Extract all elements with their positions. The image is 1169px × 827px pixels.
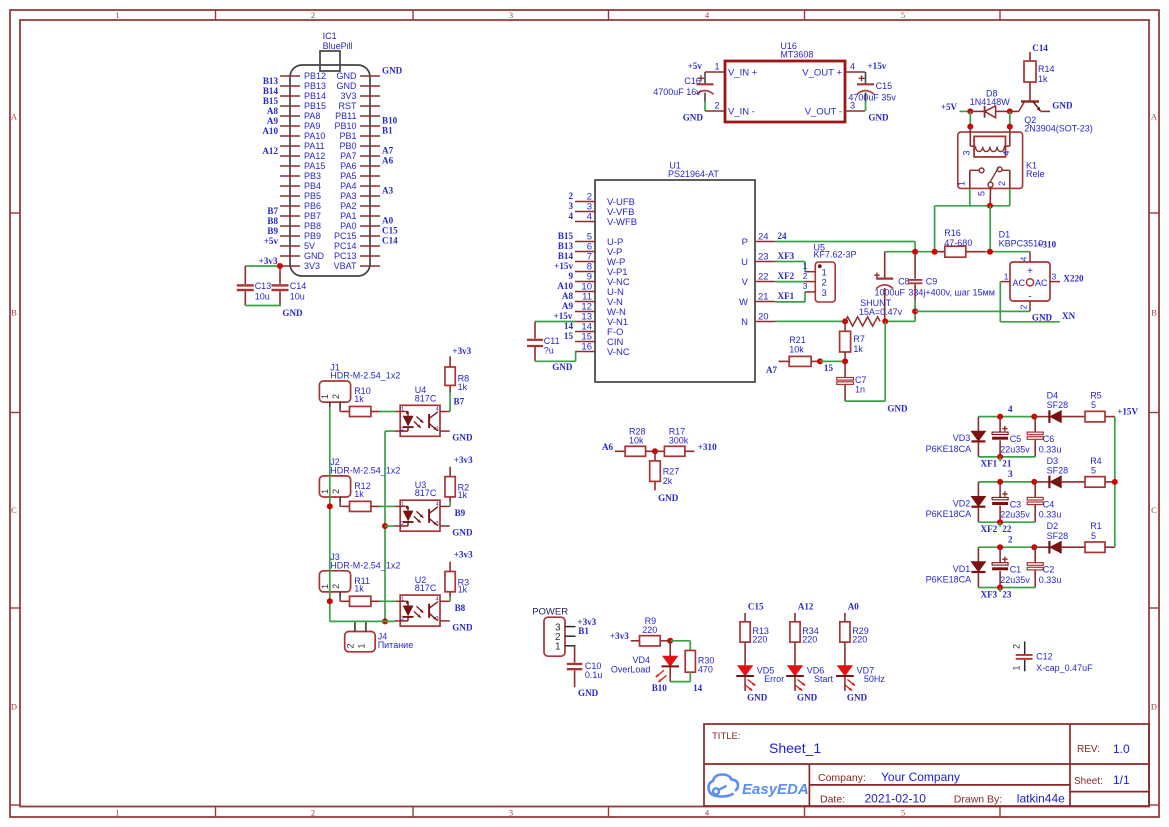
title block divider vertical right column: [1069, 724, 1071, 806]
diode D4 symbol: [1048, 410, 1050, 423]
wire top rail VD2 block: [978, 481, 1034, 483]
net label stub XF2: [999, 522, 1001, 527]
IC1 pin 3V3 (left): [280, 265, 300, 267]
optocoupler U2 pin 4 stub: [440, 600, 450, 602]
wire +5V to D8: [960, 110, 971, 112]
net label stub XF3: [999, 588, 1001, 593]
svg-text:B8: B8: [267, 216, 278, 226]
junction J3 pin1: [327, 598, 333, 604]
svg-text:KF7.62-3P: KF7.62-3P: [814, 250, 857, 260]
svg-text:B7: B7: [454, 396, 465, 406]
svg-text:C15: C15: [748, 601, 764, 611]
svg-text:B9: B9: [455, 508, 466, 518]
IC1 pin PA3 (right): [360, 195, 380, 197]
svg-text:817C: 817C: [415, 488, 437, 498]
svg-text:1: 1: [115, 808, 119, 818]
diode D3 symbol: [1048, 476, 1050, 489]
svg-text:22u35v: 22u35v: [1000, 444, 1030, 454]
capacitor C6 lead top: [1034, 417, 1036, 433]
title block divider horizontal: [704, 763, 1149, 765]
svg-text:GND: GND: [847, 692, 868, 702]
svg-text:23: 23: [1002, 589, 1012, 599]
optocoupler U4 pin 3 stub: [440, 430, 450, 432]
IC1 pin PB6 (left): [280, 205, 300, 207]
svg-text:10k: 10k: [629, 436, 644, 446]
svg-text:A: A: [11, 112, 18, 122]
svg-text:R14: R14: [1038, 64, 1055, 74]
resistor R3 lead top: [449, 562, 451, 572]
svg-text:2: 2: [311, 808, 315, 818]
svg-text:A0: A0: [382, 216, 394, 226]
U1 pin 3 V-VFB: [575, 211, 595, 213]
capacitor C14 lead top: [279, 266, 281, 284]
svg-text:Sheet:: Sheet:: [1074, 776, 1103, 787]
resistor R27 lead bottom: [654, 481, 656, 490]
svg-text:B10: B10: [382, 116, 398, 126]
svg-text:A10: A10: [557, 281, 573, 291]
relay K1 pin 4 lead: [1009, 127, 1011, 147]
svg-text:A7: A7: [766, 365, 778, 375]
svg-text:A9: A9: [562, 301, 574, 311]
svg-text:GND: GND: [578, 688, 599, 698]
svg-text:14: 14: [693, 683, 703, 693]
svg-text:?u: ?u: [544, 345, 554, 355]
resistor R10 lead right: [371, 411, 380, 413]
svg-text:B9: B9: [267, 226, 278, 236]
svg-text:4: 4: [1018, 256, 1028, 261]
junction relay pin5 at +310 row: [987, 249, 993, 255]
wire +15V rail vertical: [1114, 417, 1116, 548]
relay K1 switch pin2 arm: [1009, 170, 1011, 188]
resistor R21 lead left: [779, 360, 790, 362]
svg-text:22u35v: 22u35v: [1000, 510, 1030, 520]
svg-text:P6KE18CA: P6KE18CA: [926, 509, 972, 519]
optocoupler U2 pin 3 stub: [440, 620, 450, 622]
svg-text:REV:: REV:: [1077, 744, 1100, 755]
resistor R17 lead left: [655, 450, 664, 452]
svg-text:PB1: PB1: [339, 131, 356, 141]
wire C7 to GND: [845, 400, 885, 402]
svg-text:+3v3: +3v3: [454, 550, 473, 560]
svg-text:1: 1: [714, 62, 719, 72]
svg-text:5: 5: [1091, 531, 1096, 541]
svg-text:817C: 817C: [415, 583, 437, 593]
resistor R34: [790, 622, 800, 642]
junction C5 bottom: [997, 454, 1003, 460]
svg-text:1/1: 1/1: [1113, 773, 1130, 787]
svg-text:470: 470: [698, 665, 713, 675]
capacitor C14: [272, 284, 289, 286]
U1 pin 4 V-WFB: [575, 221, 595, 223]
svg-text:V: V: [742, 277, 749, 288]
svg-text:V-NC: V-NC: [607, 347, 630, 358]
IC1 pin PA15 (left): [280, 165, 300, 167]
svg-text:PB13: PB13: [304, 81, 326, 91]
relay K1 switch pin1 arm: [969, 170, 971, 188]
resistor R2 lead top: [449, 467, 451, 477]
svg-text:HDR-M-2.54_1x2: HDR-M-2.54_1x2: [330, 371, 400, 381]
svg-text:1N4148W: 1N4148W: [970, 97, 1011, 107]
IC1 pin PB1 (right): [360, 135, 380, 137]
capacitor C6 lead bottom: [1034, 439, 1036, 457]
diode D8 cathode lead: [996, 110, 1010, 112]
optocoupler U2 internal LED: [400, 600, 408, 602]
svg-text:GND: GND: [683, 113, 704, 123]
IC1 pin PB9 (left): [280, 235, 300, 237]
IC1 pin PB4 (left): [280, 185, 300, 187]
svg-text:3V3: 3V3: [340, 91, 356, 101]
U1 pin 21 W: [755, 301, 775, 303]
svg-text:Drawn By:: Drawn By:: [954, 794, 1002, 806]
svg-text:XN: XN: [1062, 311, 1076, 321]
title block outline: [704, 724, 1149, 806]
resistor R29 lead top: [844, 613, 846, 622]
svg-text:1000uF: 1000uF: [875, 288, 906, 298]
resistor R2: [445, 477, 455, 497]
IC1 pin PB11 (right): [360, 115, 380, 117]
wire U3 pin2 link: [385, 525, 395, 527]
optocoupler U2 light arrows: [417, 606, 424, 612]
resistor R12: [350, 501, 371, 511]
svg-text:B15: B15: [558, 231, 574, 241]
svg-text:Sheet_1: Sheet_1: [769, 740, 821, 756]
svg-text:GND: GND: [304, 251, 325, 261]
svg-text:GND: GND: [887, 403, 908, 413]
svg-text:D: D: [11, 702, 17, 712]
wire U1 pin23 to U5 pin1: [775, 261, 805, 263]
svg-text:HDR-M-2.54_1x2: HDR-M-2.54_1x2: [330, 466, 400, 476]
svg-text:B14: B14: [263, 86, 279, 96]
svg-text:220: 220: [802, 635, 817, 645]
junction C9 top: [912, 249, 918, 255]
IC1 pin GND (right): [360, 75, 380, 77]
svg-text:PB10: PB10: [334, 121, 356, 131]
capacitor C4 non-polarized: [1027, 497, 1043, 500]
bridge D1 pin 2 lead: [1029, 301, 1031, 311]
svg-text:2: 2: [803, 271, 808, 281]
resistor R10 lead left: [342, 411, 350, 413]
title block sheet divider: [1070, 791, 1149, 793]
svg-text:47-680: 47-680: [944, 238, 972, 248]
svg-text:A12: A12: [262, 146, 278, 156]
U5 pin 2: [805, 281, 815, 283]
svg-text:R21: R21: [789, 335, 806, 345]
svg-text:SF28: SF28: [1047, 531, 1069, 541]
svg-text:A8: A8: [267, 106, 279, 116]
capacitor C14 lead bottom: [279, 291, 281, 305]
svg-text:VD1: VD1: [953, 564, 971, 574]
svg-text:V_OUT -: V_OUT -: [805, 106, 842, 117]
svg-text:2: 2: [1008, 535, 1013, 545]
wire D1 pin1 to XN row: [999, 282, 1001, 322]
wire R8 to U4 pin4: [449, 393, 451, 412]
title block company/date divider: [809, 784, 1070, 786]
connector J3 pin 1 stub: [329, 592, 331, 598]
capacitor C16 polarity plus: [698, 75, 704, 81]
wire VD4 to R30 bottom: [670, 681, 690, 683]
svg-text:V_IN +: V_IN +: [728, 67, 758, 78]
svg-text:GND: GND: [282, 308, 303, 318]
svg-text:GND: GND: [552, 362, 573, 372]
svg-text:XF1: XF1: [981, 459, 998, 469]
svg-text:Error: Error: [764, 674, 784, 684]
svg-text:4700uF 16v: 4700uF 16v: [653, 87, 701, 97]
capacitor C8 electrolytic: [876, 278, 893, 280]
svg-text:Date:: Date:: [820, 794, 845, 806]
svg-text:5V: 5V: [304, 241, 315, 251]
IC1 pin PA11 (left): [280, 145, 300, 147]
svg-text:P: P: [742, 237, 748, 248]
svg-text:GND: GND: [797, 692, 818, 702]
junction U2 pin2: [382, 618, 388, 624]
svg-text:2: 2: [1018, 304, 1028, 309]
svg-text:C2: C2: [1043, 565, 1055, 575]
svg-text:AC: AC: [1035, 278, 1048, 288]
wire relay pin3 riser: [969, 111, 971, 126]
svg-text:PS21964-AT: PS21964-AT: [668, 169, 719, 179]
svg-text:V-WFB: V-WFB: [607, 217, 637, 228]
U16 pin 2 V_IN-: [705, 110, 725, 112]
diode D2 symbol: [1048, 541, 1050, 554]
wire R11 to U2 pin1: [380, 600, 395, 602]
diode D8 symbol: [984, 106, 986, 118]
svg-text:A10: A10: [262, 126, 278, 136]
svg-text:PB4: PB4: [304, 181, 321, 191]
svg-text:R16: R16: [944, 228, 961, 238]
junction shunt right / C8: [882, 318, 888, 324]
junction R7/C7: [842, 358, 848, 364]
svg-text:5: 5: [1091, 466, 1096, 476]
svg-text:+3v3: +3v3: [452, 346, 471, 356]
resistor R8: [445, 367, 455, 385]
svg-text:3: 3: [803, 281, 808, 291]
U5 body: [815, 262, 835, 302]
LED VD6 lead bottom: [794, 677, 796, 691]
svg-text:C9: C9: [926, 276, 938, 286]
svg-text:A3: A3: [382, 186, 394, 196]
svg-text:PB9: PB9: [304, 231, 321, 241]
junction R28/R17/R27: [652, 448, 658, 454]
IC1 pin PA6 (right): [360, 165, 380, 167]
optocoupler U4 internal LED: [400, 411, 408, 413]
LED VD4 lead top: [669, 641, 671, 656]
svg-text:3: 3: [822, 288, 827, 299]
wire U4 pin2 link: [385, 430, 395, 432]
svg-text:N: N: [741, 317, 748, 328]
svg-text:W: W: [739, 297, 748, 308]
resistor R2 lead bottom: [449, 497, 451, 503]
svg-text:B1: B1: [382, 126, 393, 136]
svg-text:2: 2: [331, 394, 341, 399]
resistor R17: [664, 446, 685, 456]
svg-text:4: 4: [568, 211, 573, 221]
junction relay pin3: [967, 124, 973, 130]
svg-text:1: 1: [320, 584, 330, 589]
wire bottom bus to U2 pin2: [330, 620, 395, 622]
svg-text:R5: R5: [1090, 391, 1102, 401]
TVS diode VD3 symbol: [971, 431, 985, 441]
wire U1 pin22 to U5 pin2: [775, 281, 805, 283]
optocoupler U2 body: [400, 595, 440, 626]
svg-text:PB15: PB15: [304, 101, 326, 111]
IC1 pin PB15 (left): [280, 105, 300, 107]
junction C4 top: [1031, 479, 1037, 485]
resistor R29: [840, 622, 850, 642]
title block logo cell divider: [808, 764, 810, 806]
wire U1 pin21 to U5 pin3: [775, 301, 805, 303]
connector J3 body: [319, 571, 350, 592]
svg-text:GND: GND: [337, 81, 358, 91]
capacitor C11: [527, 339, 543, 341]
svg-text:A9: A9: [267, 116, 279, 126]
svg-text:X220: X220: [1063, 273, 1084, 283]
capacitor C12 pin 1 lead: [1024, 660, 1026, 672]
diode D2 lead right: [1061, 546, 1085, 548]
optocoupler U2 pin 1 stub: [395, 600, 400, 602]
svg-text:220: 220: [642, 625, 657, 635]
LED VD4 lead bottom: [669, 667, 671, 682]
U1 pin 16 V-NC: [575, 351, 595, 353]
wire C9 to D1 pin2: [915, 310, 1030, 312]
IC1 pin PC13 (right): [360, 255, 380, 257]
resistor R5 lead right: [1105, 416, 1115, 418]
svg-text:PB3: PB3: [304, 171, 321, 181]
resistor R1 lead right: [1105, 546, 1115, 548]
junction C3 bottom: [997, 519, 1003, 525]
relay K1 common contact: [988, 182, 993, 187]
capacitor C9: [908, 279, 923, 281]
svg-text:GND: GND: [452, 527, 473, 537]
svg-text:BluePill: BluePill: [323, 41, 353, 51]
IC1 pin PA8 (left): [280, 115, 300, 117]
svg-text:1k: 1k: [354, 489, 364, 499]
LED VD4 arrows: [656, 670, 664, 677]
svg-text:+3v3: +3v3: [454, 455, 473, 465]
connector J1 body: [319, 381, 350, 402]
svg-text:22: 22: [1002, 524, 1012, 534]
svg-text:23: 23: [758, 252, 769, 263]
svg-text:+15V: +15V: [1117, 406, 1138, 416]
svg-text:C15: C15: [382, 226, 398, 236]
junction relay pin5 bus: [987, 203, 993, 209]
wire C8/shunt down to GND row: [884, 321, 886, 401]
optocoupler U3 pin 3 stub: [440, 525, 450, 527]
resistor R11 lead left: [342, 600, 350, 602]
svg-text:P6KE18CA: P6KE18CA: [926, 574, 972, 584]
connector J3 pin 2 stub: [339, 592, 341, 598]
resistor R13 lead top: [744, 613, 746, 622]
svg-text:POWER: POWER: [532, 607, 568, 618]
LED VD7 symbol: [838, 666, 852, 676]
IC1 pin PB13 (left): [280, 85, 300, 87]
svg-text:PC15: PC15: [334, 231, 357, 241]
U16 pin 4 V_OUT+: [845, 71, 865, 73]
wire relay pin4 riser: [1009, 111, 1011, 126]
U1 pin 5 U-P: [575, 241, 595, 243]
svg-text:817C: 817C: [415, 393, 437, 403]
svg-text:PA11: PA11: [304, 141, 325, 151]
svg-text:PB8: PB8: [304, 221, 321, 231]
capacitor C2 lead bottom: [1034, 570, 1036, 588]
U1 pin 24 P: [755, 241, 775, 243]
capacitor C5 lead top: [999, 417, 1001, 433]
capacitor C4 lead bottom: [1034, 505, 1036, 523]
svg-text:1k: 1k: [458, 382, 468, 392]
connector POWER pin 3: [565, 626, 576, 628]
svg-text:+3v3: +3v3: [610, 631, 629, 641]
svg-text:SF28: SF28: [1047, 466, 1069, 476]
junction relay pin4: [1007, 124, 1013, 130]
IC1 notch: [320, 51, 340, 71]
capacitor C2 lead top: [1034, 547, 1036, 563]
svg-text:PC13: PC13: [334, 251, 357, 261]
svg-text:2: 2: [331, 584, 341, 589]
U16 pin 3 V_OUT-: [845, 110, 865, 112]
svg-text:A: A: [1151, 112, 1158, 122]
capacitor C8 lead bottom: [884, 288, 886, 321]
svg-text:B10: B10: [652, 683, 668, 693]
connector POWER pin 2: [565, 635, 576, 637]
svg-text:2k: 2k: [663, 476, 673, 486]
svg-text:PA7: PA7: [340, 151, 356, 161]
bridge D1 pin 3 lead: [1050, 281, 1060, 283]
svg-text:1.0: 1.0: [1113, 742, 1130, 756]
svg-text:Company:: Company:: [818, 772, 866, 784]
svg-text:20: 20: [758, 312, 769, 323]
wire R2 to U3 pin4: [449, 502, 451, 506]
capacitor C10 lead top: [574, 646, 576, 663]
svg-text:4: 4: [1002, 150, 1012, 155]
TVS diode VD1 lead top: [977, 547, 979, 562]
svg-text:RST: RST: [339, 101, 358, 111]
TVS diode VD1 symbol: [971, 562, 985, 572]
capacitor C16 lead bottom: [704, 93, 706, 102]
svg-text:334j+400v, шаг 15мм: 334j+400v, шаг 15мм: [908, 288, 995, 298]
svg-text:22: 22: [758, 272, 769, 283]
svg-text:2: 2: [714, 101, 719, 111]
svg-text:1: 1: [115, 10, 119, 20]
svg-text:VBAT: VBAT: [334, 261, 357, 271]
svg-text:X-cap_0.47uF: X-cap_0.47uF: [1036, 663, 1093, 673]
svg-text:V_OUT +: V_OUT +: [802, 67, 842, 78]
svg-text:15: 15: [564, 331, 574, 341]
svg-text:4700uF 35v: 4700uF 35v: [848, 93, 896, 103]
wire C16 to U16 pin2: [704, 102, 706, 112]
svg-text:C13: C13: [255, 281, 272, 291]
svg-text:+15v: +15v: [554, 311, 573, 321]
optocoupler U3 pin 2 stub: [395, 525, 401, 527]
capacitor C13 lead top: [244, 266, 246, 284]
IC1 pin 5V (left): [280, 245, 300, 247]
IC1 pin PB14 (left): [280, 95, 300, 97]
capacitor C10 lead bottom: [574, 670, 576, 687]
resistor R7 lead bottom: [844, 352, 846, 361]
resistor R8 lead bottom: [449, 385, 451, 392]
connector J2 body: [319, 476, 350, 497]
wire top rail VD3 block: [978, 416, 1034, 418]
svg-text:3: 3: [1008, 469, 1013, 479]
bridge rectifier D1 body: [1010, 262, 1050, 301]
svg-text:PA3: PA3: [340, 191, 356, 201]
svg-text:V_IN -: V_IN -: [728, 106, 755, 117]
svg-text:4: 4: [850, 62, 855, 72]
resistor R30: [685, 651, 695, 673]
svg-text:2: 2: [331, 489, 341, 494]
optocoupler U3 internal LED: [400, 505, 408, 507]
TVS diode VD1 lead bottom: [977, 572, 979, 587]
svg-text:3V3: 3V3: [304, 261, 320, 271]
svg-text:10k: 10k: [789, 345, 804, 355]
